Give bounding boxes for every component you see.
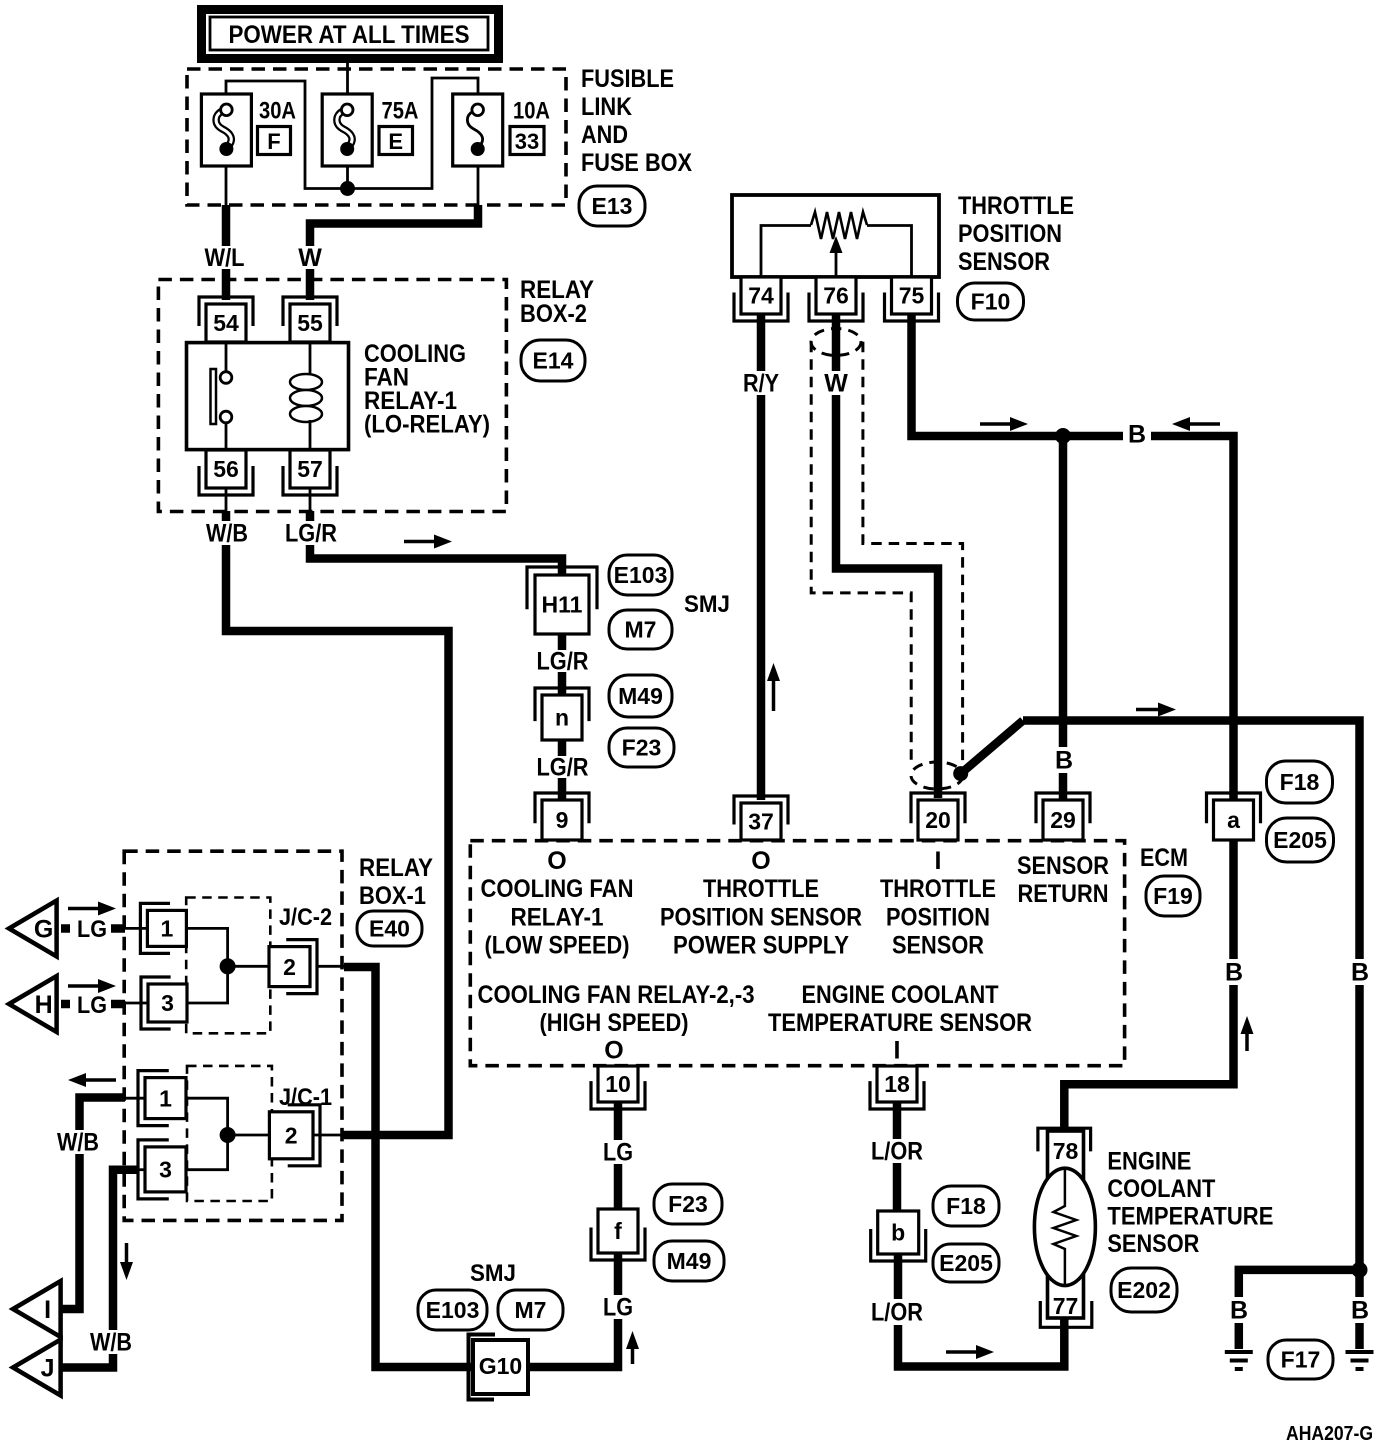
- wire LG ECM pin 10 to SMJ f: [614, 1102, 623, 1212]
- svg-text:E: E: [388, 129, 403, 154]
- svg-text:F17: F17: [1281, 1347, 1321, 1373]
- svg-text:(LOW SPEED): (LOW SPEED): [485, 932, 630, 960]
- wire J/C-1 internal: [186, 1098, 228, 1170]
- J/C-1 pin 2: [288, 1105, 320, 1166]
- wire fuse 30A bottom lead: [225, 152, 228, 205]
- ECM pin 10: [591, 1081, 645, 1109]
- svg-text:BOX-1: BOX-1: [359, 882, 426, 910]
- wire LG/R n to ECM pin 9: [558, 740, 567, 802]
- svg-text:O: O: [604, 1037, 623, 1065]
- connector ref E13: [579, 186, 645, 226]
- flow arrow right on drain wire: [1136, 708, 1160, 712]
- svg-text:B: B: [1351, 1297, 1369, 1325]
- svg-text:33: 33: [515, 129, 539, 154]
- svg-text:n: n: [555, 705, 569, 731]
- svg-text:55: 55: [297, 310, 323, 336]
- fuse box E13 dashed enclosure: [187, 69, 566, 205]
- wire junction to fuse 10A top: [348, 78, 479, 189]
- svg-text:F: F: [267, 129, 280, 154]
- ECM pin 20: [911, 793, 965, 823]
- svg-text:TEMPERATURE: TEMPERATURE: [1107, 1203, 1273, 1231]
- relay switch contact: [225, 343, 228, 372]
- relay coil: [309, 343, 312, 376]
- connector ref M7: [498, 1290, 563, 1330]
- svg-text:ECM: ECM: [1140, 844, 1188, 872]
- label B near left ground: [1225, 1297, 1253, 1323]
- triangle connector H: [9, 976, 57, 1032]
- svg-text:BOX-2: BOX-2: [520, 300, 587, 328]
- svg-text:SENSOR: SENSOR: [892, 932, 984, 960]
- wire to left ground: [1239, 1270, 1360, 1349]
- svg-text:ENGINE: ENGINE: [1107, 1148, 1191, 1176]
- ground symbol left: [1225, 1350, 1253, 1354]
- flow arrow right on B wire: [980, 422, 1012, 426]
- svg-text:W: W: [824, 370, 848, 398]
- junction node on B wire: [1055, 428, 1071, 444]
- connector ref E40: [357, 911, 422, 946]
- wire W/B relay pin 56 to J/C-1 pin 2: [225, 488, 228, 513]
- svg-text:I: I: [44, 1296, 51, 1324]
- wire W/L fuse 30A to relay pin 54: [222, 205, 231, 300]
- svg-text:H: H: [35, 991, 53, 1019]
- flow arrow down beside wire: [125, 1243, 129, 1264]
- wire shield drain diagonal to B net: [961, 721, 1023, 774]
- cooling fan relay-1 body: [187, 343, 349, 450]
- connector ref F18: [933, 1186, 999, 1226]
- wire J/C-2 internal: [186, 928, 227, 1003]
- svg-text:POSITION: POSITION: [958, 220, 1062, 248]
- wire LG f to G10: [530, 1253, 618, 1367]
- svg-text:RELAY-1: RELAY-1: [511, 904, 604, 932]
- svg-text:18: 18: [884, 1071, 910, 1097]
- svg-text:AHA207-G: AHA207-G: [1286, 1423, 1373, 1445]
- label B near right ground: [1346, 1297, 1374, 1323]
- svg-text:O: O: [547, 847, 566, 875]
- svg-text:LG: LG: [603, 1139, 633, 1167]
- triangle connector G: [9, 901, 57, 957]
- label LG/R: [536, 756, 589, 778]
- svg-text:THROTTLE: THROTTLE: [880, 875, 996, 903]
- svg-text:E14: E14: [533, 348, 574, 374]
- thermistor zigzag: [1054, 1170, 1077, 1284]
- connector ref F23: [654, 1184, 722, 1224]
- svg-text:E202: E202: [1117, 1277, 1171, 1303]
- svg-text:57: 57: [297, 456, 323, 482]
- ECM pin 37: [734, 796, 788, 824]
- connector ref M49: [654, 1241, 724, 1281]
- svg-text:POWER AT ALL TIMES: POWER AT ALL TIMES: [229, 21, 470, 49]
- label LG: [600, 1295, 636, 1319]
- svg-text:B: B: [1351, 959, 1369, 987]
- SMJ connector G10: [469, 1335, 496, 1400]
- flow arrow right on bottom wire: [946, 1350, 978, 1354]
- connector ref M49: [609, 675, 672, 717]
- label LG/R: [281, 521, 341, 545]
- svg-text:R/Y: R/Y: [743, 370, 779, 398]
- svg-text:ENGINE COOLANT: ENGINE COOLANT: [802, 981, 999, 1009]
- label B on a wire: [1220, 959, 1248, 985]
- TPS pin 74: [734, 293, 788, 321]
- junction node J/C-1: [220, 1127, 236, 1143]
- svg-text:J/C-2: J/C-2: [279, 904, 332, 931]
- svg-text:POSITION SENSOR: POSITION SENSOR: [660, 904, 862, 932]
- svg-text:78: 78: [1053, 1138, 1079, 1164]
- svg-text:77: 77: [1053, 1293, 1079, 1319]
- flow arrow left on B wire: [1188, 422, 1220, 426]
- engine coolant temperature sensor E202 body: [1038, 1128, 1091, 1151]
- svg-text:W/B: W/B: [90, 1329, 132, 1357]
- connector n: [535, 688, 589, 721]
- svg-text:F19: F19: [1153, 883, 1193, 909]
- svg-text:b: b: [891, 1220, 905, 1246]
- svg-text:G10: G10: [479, 1353, 522, 1379]
- svg-text:F18: F18: [946, 1193, 986, 1219]
- J/C-1 pin 1: [138, 1071, 169, 1126]
- svg-text:W/B: W/B: [206, 520, 248, 548]
- wire L/OR ECM pin 18 to connector b: [893, 1102, 902, 1213]
- svg-text:POWER SUPPLY: POWER SUPPLY: [673, 932, 849, 960]
- relay box-2 dashed enclosure E14: [158, 280, 506, 512]
- svg-text:LG/R: LG/R: [537, 648, 589, 676]
- svg-text:E205: E205: [1273, 827, 1327, 853]
- label W/B: [86, 1330, 136, 1354]
- ECM pin 29: [1036, 793, 1090, 823]
- svg-text:H11: H11: [542, 592, 583, 618]
- svg-text:L/OR: L/OR: [871, 1299, 923, 1327]
- flow arrow left above wire: [84, 1078, 116, 1082]
- ECM dashed enclosure F19: [470, 841, 1124, 1066]
- connector ref E202: [1111, 1268, 1177, 1312]
- wire fusible-link crossover left: [226, 81, 341, 189]
- svg-text:10: 10: [605, 1071, 631, 1097]
- svg-text:SMJ: SMJ: [470, 1260, 516, 1287]
- wire LG G10 to J/C-2 pin 2: [344, 967, 473, 1367]
- J/C-1 pin 3: [138, 1140, 169, 1199]
- svg-text:W: W: [298, 244, 322, 272]
- svg-text:1: 1: [159, 1085, 172, 1111]
- fusible link 30A F: [201, 94, 251, 166]
- relay pin 56: [199, 466, 253, 495]
- svg-text:LINK: LINK: [581, 93, 632, 121]
- ECM pin 18: [870, 1081, 924, 1109]
- label LG: [600, 1140, 636, 1164]
- junction node bottom right: [1352, 1262, 1368, 1278]
- flow arrow right above H wire: [68, 984, 100, 988]
- svg-text:E103: E103: [614, 562, 668, 588]
- svg-text:FUSE BOX: FUSE BOX: [581, 149, 692, 177]
- svg-text:B: B: [1128, 421, 1146, 449]
- wire W fuse 10A to relay pin 55: [310, 205, 478, 300]
- label W/B: [199, 521, 255, 545]
- svg-text:2: 2: [283, 954, 296, 980]
- svg-text:3: 3: [159, 1157, 172, 1183]
- svg-text:RELAY: RELAY: [359, 854, 433, 882]
- svg-text:3: 3: [161, 990, 174, 1016]
- svg-text:E103: E103: [426, 1297, 480, 1323]
- svg-text:M49: M49: [618, 683, 663, 709]
- svg-text:20: 20: [925, 807, 951, 833]
- svg-text:L/OR: L/OR: [871, 1138, 923, 1166]
- svg-text:COOLANT: COOLANT: [1107, 1175, 1215, 1203]
- svg-text:E205: E205: [939, 1250, 993, 1276]
- label L/OR: [871, 1139, 923, 1163]
- svg-text:I: I: [894, 1037, 901, 1065]
- wire R/Y TPS pin 74 to ECM pin 37: [757, 314, 766, 800]
- wire from power banner to fuse 75A: [346, 63, 349, 104]
- wire LG to triangle G: [61, 924, 70, 933]
- wire LG/R relay pin 57 to SMJ H11: [309, 488, 312, 513]
- svg-text:M49: M49: [667, 1248, 712, 1274]
- svg-text:F10: F10: [971, 289, 1011, 315]
- svg-text:B: B: [1225, 959, 1243, 987]
- fusible link 75A E: [322, 94, 372, 166]
- relay pin 54: [199, 297, 253, 326]
- junction node in fuse box: [340, 181, 355, 196]
- label W/B: [53, 1130, 103, 1154]
- svg-text:AND: AND: [581, 121, 628, 149]
- connector ref F10: [958, 283, 1024, 320]
- TPS pin 75: [885, 293, 939, 321]
- ECM pin 9: [535, 793, 589, 823]
- svg-text:75A: 75A: [382, 98, 419, 125]
- connector b: [871, 1229, 926, 1261]
- svg-text:W/B: W/B: [57, 1129, 99, 1157]
- connector ref E14: [521, 340, 585, 381]
- connector ref E205: [1267, 818, 1334, 862]
- svg-text:E13: E13: [592, 193, 633, 219]
- svg-text:76: 76: [823, 283, 849, 309]
- connector ref F17: [1268, 1340, 1333, 1379]
- connector ref M7: [609, 610, 672, 649]
- relay pin 57: [283, 466, 337, 495]
- svg-text:SENSOR: SENSOR: [1107, 1230, 1199, 1258]
- wire B TPS pin 75 to ECM pin 29 and sensor ground net: [912, 314, 1234, 799]
- connector ref E103: [418, 1290, 487, 1330]
- svg-text:37: 37: [748, 809, 774, 835]
- potentiometer wiper arrow: [835, 251, 838, 277]
- svg-text:SENSOR: SENSOR: [958, 248, 1050, 276]
- svg-text:J: J: [41, 1355, 55, 1383]
- connector ref F23: [609, 728, 674, 767]
- ground symbol right: [1346, 1350, 1374, 1354]
- wire fuse 10A bottom lead: [477, 152, 480, 205]
- wire LG/R H11 to n: [558, 634, 567, 700]
- wire LG to triangle H: [61, 1000, 70, 1009]
- junction connector J/C-1 dashed box: [187, 1066, 272, 1201]
- svg-text:J/C-1: J/C-1: [279, 1084, 332, 1111]
- triangle connector J: [13, 1340, 61, 1396]
- label L/OR: [871, 1299, 923, 1325]
- svg-text:56: 56: [213, 456, 239, 482]
- wire B shield drain to right ground rail: [1023, 721, 1360, 1350]
- TPS pin 76: [809, 293, 863, 321]
- svg-text:LG: LG: [77, 992, 107, 1019]
- label B above pin 29: [1050, 747, 1078, 773]
- wire W/B J/C-1 pin 1 to triangle I: [124, 1097, 145, 1100]
- shield drain junction node: [953, 766, 968, 781]
- wire L/OR b to ECT sensor pin 77: [898, 1254, 1064, 1367]
- triangle connector I: [13, 1281, 61, 1337]
- svg-text:75: 75: [899, 283, 925, 309]
- flow arrow right on LG/R wire: [404, 540, 436, 544]
- svg-text:LG: LG: [77, 916, 107, 943]
- connector ref E103: [609, 555, 672, 595]
- svg-text:F18: F18: [1280, 769, 1320, 795]
- junction node J/C-2: [220, 958, 236, 974]
- connector a: [1207, 793, 1261, 823]
- svg-text:54: 54: [213, 310, 239, 336]
- junction connector J/C-2 dashed box: [186, 898, 270, 1034]
- relay box-1 dashed enclosure E40: [124, 851, 342, 1220]
- svg-text:COOLING FAN: COOLING FAN: [481, 875, 634, 903]
- svg-text:74: 74: [748, 283, 774, 309]
- svg-text:THROTTLE: THROTTLE: [958, 192, 1074, 220]
- svg-text:M7: M7: [625, 617, 657, 643]
- svg-text:FUSIBLE: FUSIBLE: [581, 65, 674, 93]
- label W/L: [200, 246, 249, 269]
- potentiometer resistor: [811, 212, 867, 239]
- svg-text:RETURN: RETURN: [1018, 880, 1109, 908]
- svg-text:E40: E40: [369, 916, 410, 942]
- SMJ connector H11: [527, 567, 597, 609]
- svg-text:THROTTLE: THROTTLE: [703, 875, 819, 903]
- wire J/C-1 pin 2 stub: [313, 1134, 341, 1137]
- label LG/R: [536, 650, 589, 672]
- power source banner POWER AT ALL TIMES: [202, 10, 499, 59]
- svg-text:(HIGH SPEED): (HIGH SPEED): [540, 1009, 689, 1037]
- svg-text:29: 29: [1050, 807, 1076, 833]
- svg-text:9: 9: [556, 807, 569, 833]
- svg-text:B: B: [1230, 1297, 1248, 1325]
- connector ref F19: [1146, 876, 1200, 916]
- flow arrow up on a wire: [1245, 1032, 1249, 1051]
- svg-text:M7: M7: [515, 1297, 547, 1323]
- wire W TPS pin 76 to ECM pin 20: [836, 314, 938, 798]
- svg-text:B: B: [1055, 747, 1073, 775]
- svg-text:G: G: [34, 916, 53, 944]
- svg-text:2: 2: [285, 1123, 298, 1149]
- svg-text:LG: LG: [603, 1294, 633, 1322]
- svg-text:SMJ: SMJ: [684, 591, 730, 618]
- label R/Y: [738, 371, 784, 395]
- svg-text:F23: F23: [668, 1191, 708, 1217]
- svg-text:(LO-RELAY): (LO-RELAY): [364, 411, 490, 439]
- connector ref F18: [1267, 761, 1333, 803]
- J/C-2 pin 3: [141, 977, 171, 1029]
- svg-text:LG/R: LG/R: [537, 754, 589, 782]
- label W: [820, 371, 852, 395]
- connector ref E205: [933, 1244, 999, 1282]
- wire B connector a to engine coolant temp sensor pin 78: [1064, 840, 1233, 1128]
- fuse 10A 33: [453, 94, 503, 166]
- svg-text:F23: F23: [622, 735, 662, 761]
- flow arrow up beside LG wire: [631, 1347, 635, 1364]
- svg-text:SENSOR: SENSOR: [1017, 852, 1109, 880]
- label B right rail: [1346, 959, 1374, 985]
- svg-text:30A: 30A: [259, 98, 296, 125]
- J/C-2 pin 2: [286, 940, 317, 994]
- svg-text:COOLING FAN RELAY-2,-3: COOLING FAN RELAY-2,-3: [478, 981, 755, 1009]
- svg-text:a: a: [1227, 807, 1240, 833]
- wire W/B J/C-1 pin 3 to triangle J: [137, 1168, 145, 1171]
- J/C-2 pin 1: [140, 903, 170, 953]
- label B on top horizontal: [1123, 421, 1151, 447]
- relay pin 55: [283, 297, 337, 326]
- wire fuse 75A bottom to junction: [346, 152, 349, 189]
- throttle position sensor F10 body: [732, 195, 939, 277]
- svg-text:POSITION: POSITION: [886, 904, 990, 932]
- svg-text:TEMPERATURE SENSOR: TEMPERATURE SENSOR: [768, 1009, 1032, 1037]
- svg-text:O: O: [751, 847, 770, 875]
- label W: [294, 246, 326, 269]
- svg-text:I: I: [935, 847, 942, 875]
- connector f: [591, 1227, 645, 1260]
- wire B junction down to ECM pin 29: [1059, 436, 1068, 802]
- flow arrow up on R/Y wire: [772, 679, 776, 711]
- flow arrow right above G wire: [68, 907, 100, 911]
- svg-text:f: f: [614, 1218, 622, 1244]
- svg-text:LG/R: LG/R: [285, 520, 337, 548]
- shield sheath dashed around W wire: [811, 342, 911, 764]
- svg-text:W/L: W/L: [205, 244, 245, 272]
- svg-text:1: 1: [161, 916, 174, 942]
- svg-text:10A: 10A: [513, 98, 550, 125]
